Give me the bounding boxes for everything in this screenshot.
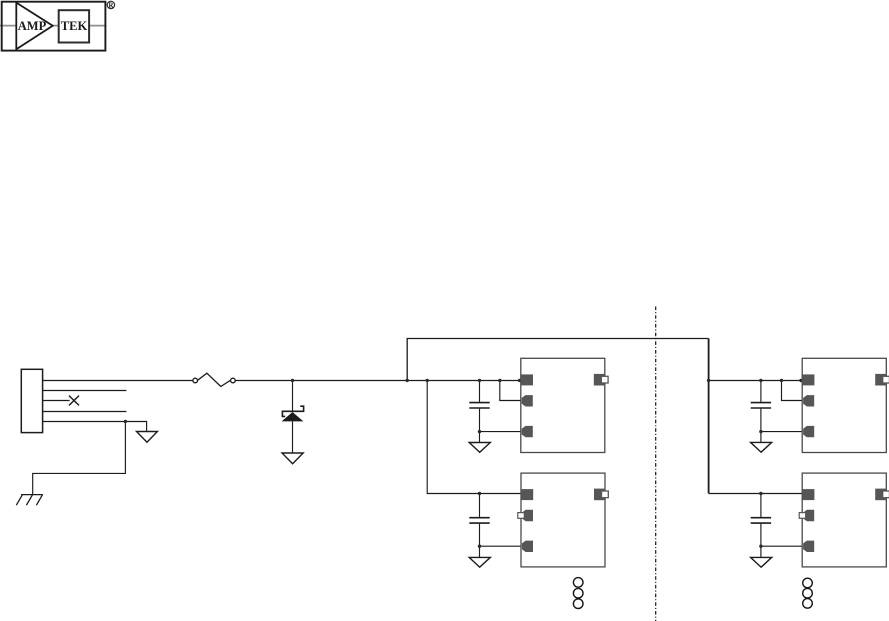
logo signal line [0,25,107,27]
no-connect X pin3 [69,396,79,406]
chassis earth ground [16,495,43,506]
ground pin5 [137,432,158,443]
wire right bus vertical [708,339,710,494]
board boundary dash-dot line [655,307,657,621]
capacitor C1 [479,381,481,403]
wire C4 to U4 pin3 [761,545,803,547]
wire pin3 stub [43,400,70,402]
logo outer frame [2,2,106,51]
capacitor C4 [760,494,762,518]
wire U3 pin2 feed [782,381,803,401]
wire pin1 to fuse [43,380,193,382]
IC U1 [521,358,608,452]
ground C3 [751,442,772,452]
ground C1 [469,443,490,453]
wire right row1 [709,380,803,382]
capacitor C2 [479,494,481,518]
wire zener branch [292,381,294,412]
wire left row2 feed [427,381,521,494]
logo TEK box [59,10,89,42]
svg-text:TEK: TEK [61,19,88,33]
svg-text:AMP: AMP [18,19,47,33]
logo AMPTEK [0,1,115,50]
logo registered mark [107,1,114,8]
junction dots [124,379,803,548]
ground C4 [751,557,772,567]
wire fuse to U1 pin1 [235,380,521,382]
svg-text:R: R [108,2,113,9]
IC U3 [802,358,889,452]
fuse F1 [193,378,198,383]
continuation dots right [803,578,813,608]
wire pin5 to chassis [33,422,126,495]
wire C1 to U1 pin3 [480,431,522,433]
wire top distribution [407,339,708,381]
continuation dots left [573,578,583,609]
wire pin5 [43,422,147,432]
zener diode D1 [282,406,303,416]
ground zener [282,453,303,464]
capacitor C3 [760,381,762,403]
wire U1 pin2 feed [500,381,522,401]
IC U2 [518,473,609,567]
connector J1 [21,369,42,432]
ground C2 [469,557,490,567]
no-connect square U2 pin2 [518,513,525,519]
wire pin2 [43,390,127,392]
no-connect square U4 pin2 [799,513,806,519]
logo amplifier triangle [16,3,52,50]
wire right row2 [709,493,803,495]
wire C3 to U3 pin3 [761,431,803,433]
wire pin4 [43,411,127,413]
IC U4 [799,473,889,567]
wire C2 to U2 pin3 [480,545,522,547]
